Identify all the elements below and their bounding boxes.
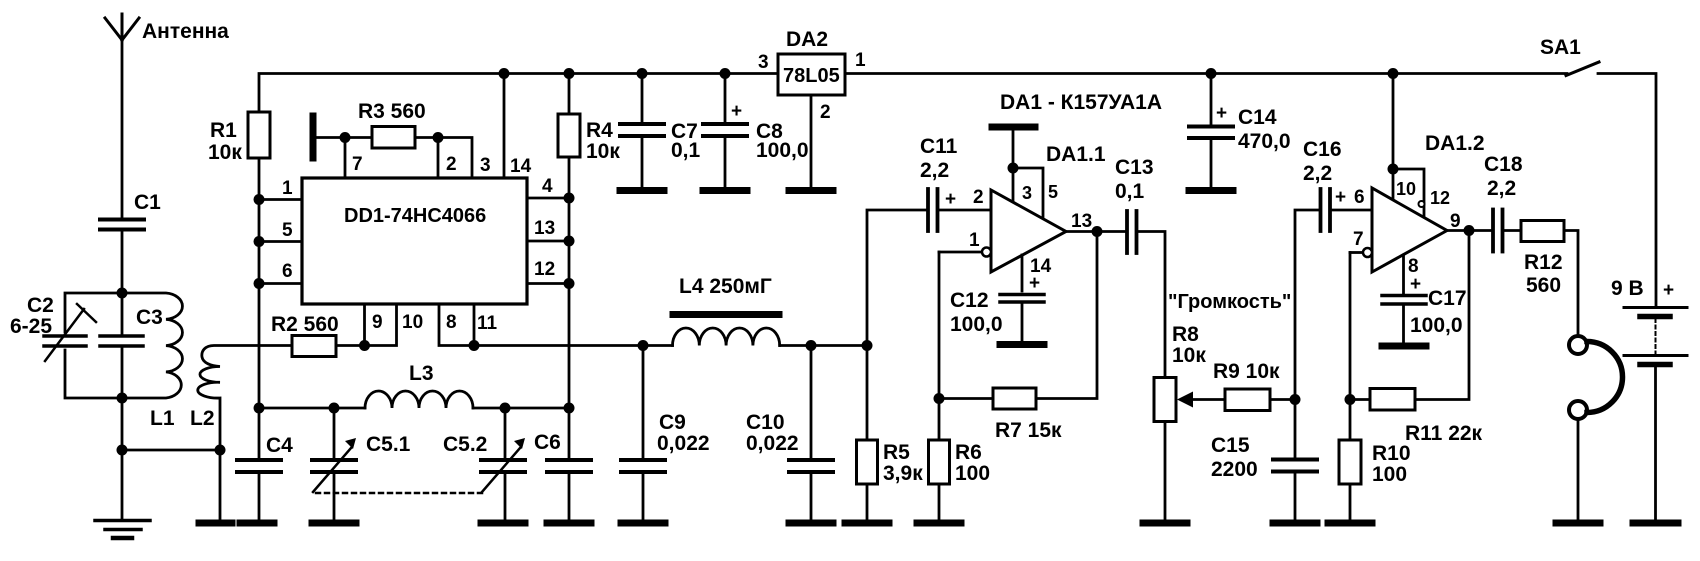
svg-text:3: 3 [480, 155, 491, 176]
wire pin 13 [527, 240, 569, 243]
resistor R11 22k [1370, 389, 1415, 411]
node pin13 [564, 236, 575, 247]
pin 12 small circle [1419, 201, 1425, 207]
svg-text:8: 8 [446, 312, 457, 333]
capacitor C9 0,022 [621, 346, 665, 520]
svg-text:L3: L3 [409, 362, 434, 385]
pin 7 input circle [1350, 248, 1372, 257]
node pin13 output [1092, 226, 1103, 237]
wire pin 9 [363, 304, 366, 346]
capacitor C5.2 (variable) [481, 408, 525, 519]
svg-text:+: + [1216, 103, 1227, 124]
ground bar under C9 [621, 520, 665, 527]
svg-text:100: 100 [955, 462, 990, 485]
capacitor C5.1 (variable) [312, 408, 356, 519]
svg-text:R12: R12 [1524, 251, 1563, 274]
svg-text:7: 7 [1353, 229, 1364, 250]
svg-text:10: 10 [1396, 179, 1416, 199]
ground bar under R10 [1328, 520, 1372, 527]
svg-text:DA1.2: DA1.2 [1425, 132, 1485, 155]
svg-text:DA2: DA2 [786, 28, 828, 51]
svg-text:R5: R5 [883, 441, 910, 464]
svg-text:C15: C15 [1211, 434, 1250, 457]
ground bar under battery [1633, 520, 1678, 527]
node pin9 output [1464, 225, 1475, 236]
node pins 10/12 tie [1388, 164, 1399, 175]
svg-text:13: 13 [1071, 211, 1092, 232]
svg-text:560: 560 [1526, 274, 1561, 297]
svg-text:7: 7 [352, 154, 363, 175]
svg-text:SA1: SA1 [1540, 36, 1581, 59]
svg-text:C2: C2 [27, 294, 54, 317]
wire R7 to output [1036, 232, 1097, 399]
svg-text:R2 560: R2 560 [271, 313, 339, 336]
svg-text:DD1-74HC4066: DD1-74HC4066 [344, 205, 486, 227]
svg-text:3: 3 [1022, 183, 1032, 203]
wire to L4 [643, 344, 673, 347]
inductor L3 [365, 391, 473, 408]
svg-text:R9 10к: R9 10к [1213, 360, 1280, 383]
wire pin 2 drop [437, 138, 440, 179]
capacitor C3 [100, 293, 143, 398]
wire pin 1 [259, 198, 302, 201]
wire pin 4 [527, 197, 569, 200]
regulator DA2 78L05 [778, 54, 845, 95]
wire R11 to output [1415, 231, 1469, 400]
svg-text:R11 22к: R11 22к [1405, 422, 1483, 445]
svg-text:C3: C3 [136, 306, 163, 329]
node rail R4 [564, 68, 575, 79]
svg-text:5: 5 [1048, 182, 1058, 202]
node R6/R7 junction [934, 393, 945, 404]
wire pin 7 drop [344, 138, 347, 179]
node C2/C3/L1 bottom junction [117, 393, 128, 404]
svg-text:C5.2: C5.2 [443, 433, 487, 456]
node C9 junction [638, 340, 649, 351]
svg-text:6: 6 [1354, 187, 1365, 208]
svg-text:9: 9 [372, 312, 383, 333]
wire DA2 pin2 [810, 95, 813, 187]
node pin11 [469, 340, 480, 351]
svg-text:13: 13 [534, 218, 555, 239]
antenna WA1 [105, 14, 139, 217]
wire L3 row [259, 407, 365, 410]
svg-text:3: 3 [758, 52, 769, 73]
resistor R5 3,9k [857, 346, 878, 520]
svg-text:0,022: 0,022 [746, 432, 799, 455]
svg-text:100: 100 [1372, 463, 1407, 486]
svg-text:2,2: 2,2 [1303, 162, 1332, 185]
node pin6 junction [254, 278, 265, 289]
capacitor C2 (variable) [44, 293, 122, 398]
svg-text:10к: 10к [1172, 344, 1206, 367]
svg-text:C13: C13 [1115, 156, 1154, 179]
svg-text:78L05: 78L05 [783, 65, 840, 87]
wire pins 8,11 to filter [439, 304, 643, 346]
svg-text:12: 12 [534, 259, 555, 280]
svg-text:L4 250мГ: L4 250мГ [679, 275, 772, 298]
svg-text:R7 15к: R7 15к [995, 419, 1062, 442]
wire R2 to pins 9,10 [336, 304, 397, 346]
wire dashed gang link [316, 492, 482, 495]
node pin7 junction [340, 132, 351, 143]
wire pin 14 drop [503, 74, 506, 179]
svg-text:0,022: 0,022 [657, 432, 710, 455]
wire R9 to C15/C16 node [1270, 398, 1295, 401]
node C5.1 [329, 403, 340, 414]
svg-text:2: 2 [820, 102, 831, 123]
node pin12 [564, 278, 575, 289]
svg-text:1: 1 [282, 178, 293, 199]
svg-text:+: + [945, 189, 956, 210]
resistor R9 10k [1225, 389, 1270, 411]
svg-text:L2: L2 [190, 407, 215, 430]
capacitor C8 100,0 [703, 74, 747, 188]
capacitor C4 [237, 408, 281, 519]
pin 1 input circle [939, 248, 991, 257]
node L3 left [254, 403, 265, 414]
svg-text:14: 14 [1030, 256, 1052, 277]
svg-text:10: 10 [402, 312, 423, 333]
svg-text:C6: C6 [534, 431, 561, 454]
svg-text:C17: C17 [1428, 287, 1467, 310]
svg-text:R6: R6 [955, 441, 982, 464]
svg-text:12: 12 [1430, 188, 1450, 208]
node rail DA1.2 supply [1388, 68, 1399, 79]
ground bar under R5 [845, 520, 889, 527]
wire L3 right [473, 407, 569, 410]
switch SA1 [1566, 62, 1656, 306]
power tap bar DA1.1 [992, 124, 1035, 131]
node C11/R5 junction [862, 340, 873, 351]
capacitor C18 2,2 [1493, 210, 1521, 252]
power tap bar (pin 7 supply) [310, 116, 317, 158]
svg-text:R10: R10 [1372, 442, 1411, 465]
ground bar under C8 [703, 187, 747, 194]
capacitor C12 100,0 [1000, 255, 1044, 341]
node C10 junction [806, 340, 817, 351]
ground bar under C6 [547, 520, 591, 527]
svg-text:C1: C1 [134, 191, 161, 214]
ground bar under phones [1556, 520, 1600, 527]
svg-text:C16: C16 [1303, 138, 1342, 161]
svg-text:10к: 10к [586, 140, 620, 163]
ground bar under R6 [917, 520, 961, 527]
capacitor C1 [100, 220, 144, 293]
svg-text:C12: C12 [950, 289, 989, 312]
capacitor C17 100,0 [1382, 255, 1426, 342]
ground bar under C5.1 [312, 520, 356, 527]
ground bar under C4 [240, 520, 274, 527]
ground bar under C14 [1189, 187, 1233, 194]
inductor L4 [673, 328, 780, 346]
ground bar under C7 [620, 187, 664, 194]
svg-text:C14: C14 [1238, 106, 1277, 129]
svg-text:100,0: 100,0 [950, 313, 1003, 336]
svg-text:470,0: 470,0 [1238, 130, 1291, 153]
ground bar under C5.2 [481, 520, 525, 527]
wire pin 12 [527, 282, 569, 285]
svg-text:+: + [1663, 280, 1674, 301]
node pin2 junction [433, 132, 444, 143]
node antenna-tank junction [117, 288, 128, 299]
svg-text:4: 4 [542, 176, 553, 197]
ground bar under C15 [1273, 520, 1317, 527]
svg-text:0,1: 0,1 [671, 139, 701, 162]
resistor R10 100 [1339, 400, 1361, 520]
op-amp DA1.2 [1372, 188, 1447, 272]
svg-text:2200: 2200 [1211, 458, 1258, 481]
svg-text:2,2: 2,2 [920, 159, 949, 182]
ground bar under C12 [1000, 341, 1044, 348]
svg-text:9: 9 [1450, 211, 1461, 232]
node pin4 [564, 193, 575, 204]
node ground-wire junction left [117, 445, 128, 456]
ground bar under C17 [1382, 343, 1426, 350]
wire DA1.2 output [1447, 229, 1491, 232]
svg-text:C10: C10 [746, 411, 785, 434]
capacitor C14 470,0 [1189, 74, 1233, 188]
svg-text:2: 2 [446, 154, 457, 175]
wiper arrow R8 [1177, 392, 1225, 408]
svg-text:1: 1 [855, 50, 866, 71]
resistor R6 100 [929, 399, 950, 520]
wire junction to R7 [939, 397, 993, 400]
svg-text:2: 2 [973, 187, 984, 208]
ground (classic) under tank [95, 521, 150, 539]
resistor R2 560 [292, 336, 336, 357]
ground bar under L2 [199, 520, 232, 527]
inductor L1 [122, 293, 182, 398]
svg-text:+: + [1410, 274, 1421, 295]
svg-text:DA1 - К157УА1А: DA1 - К157УА1А [1000, 91, 1162, 114]
wire pin 5 [259, 240, 302, 243]
wire pins 3,5 supply [1013, 130, 1043, 219]
node pin1 junction [254, 194, 265, 205]
wire pin1 feedback drop [938, 252, 941, 399]
svg-text:10к: 10к [208, 141, 242, 164]
wire L4 out [780, 344, 867, 347]
capacitor C11 2,2 [867, 189, 991, 346]
svg-text:9 В: 9 В [1611, 277, 1644, 300]
wire pin 11 [473, 304, 476, 346]
svg-text:+: + [1335, 187, 1346, 208]
svg-text:R4: R4 [586, 119, 613, 142]
resistor R3 560 [372, 127, 415, 149]
svg-text:1: 1 [969, 230, 980, 251]
inductor L2 [198, 346, 292, 520]
wire pin 6 [259, 282, 302, 285]
svg-text:14: 14 [510, 156, 532, 177]
capacitor C7 0,1 [620, 74, 664, 188]
capacitor C16 2,2 [1295, 189, 1372, 400]
svg-text:100,0: 100,0 [756, 139, 809, 162]
svg-text:C11: C11 [920, 135, 958, 158]
wire R3 to pins 2,3 [415, 138, 472, 179]
ground bar under R8 [1143, 520, 1187, 527]
potentiometer R8 [1154, 378, 1176, 520]
capacitor C6 [547, 408, 591, 519]
node ground-wire junction at L2 [215, 445, 226, 456]
wire ground link [122, 449, 220, 452]
resistor R1 10k [248, 112, 270, 408]
node pin5 junction [254, 236, 265, 247]
capacitor C15 2200 [1273, 400, 1317, 520]
wire pin7 drop [1349, 253, 1352, 400]
ground bar under DA2 [789, 187, 833, 194]
wire pins 10,12 supply [1393, 74, 1424, 218]
wire R12 to phones [1564, 231, 1578, 337]
svg-text:L1: L1 [150, 407, 175, 430]
svg-text:+: + [731, 101, 742, 122]
node rail C8 [720, 68, 731, 79]
node R10/R11 junction [1345, 394, 1356, 405]
headphone BF1 [1569, 336, 1623, 519]
svg-text:R1: R1 [210, 119, 237, 142]
svg-text:6-25: 6-25 [10, 315, 52, 338]
op-amp DA1.1 [991, 190, 1066, 272]
IC DD1 74HC4066 box [302, 178, 527, 304]
wire DA1.1 output [1066, 230, 1125, 233]
node C5.2 [500, 403, 511, 414]
svg-text:C4: C4 [266, 434, 293, 457]
capacitor C13 0,1 [1127, 211, 1165, 378]
resistor R7 15k [993, 388, 1036, 409]
svg-text:11: 11 [477, 313, 498, 334]
svg-text:C9: C9 [659, 411, 686, 434]
inductor L4 250mH core bar [673, 311, 779, 318]
svg-text:C5.1: C5.1 [366, 433, 411, 456]
svg-text:0,1: 0,1 [1115, 180, 1145, 203]
node pins 3/5 tie [1008, 163, 1019, 174]
svg-text:5: 5 [282, 220, 293, 241]
svg-text:100,0: 100,0 [1410, 314, 1463, 337]
svg-text:2,2: 2,2 [1487, 177, 1516, 200]
svg-text:C18: C18 [1484, 153, 1523, 176]
node rail C7 [637, 68, 648, 79]
resistor R12 560 [1521, 221, 1564, 242]
svg-text:3,9к: 3,9к [883, 462, 923, 485]
svg-text:R8: R8 [1172, 323, 1199, 346]
node rail pin14 [499, 68, 510, 79]
node C14 rail [1206, 68, 1217, 79]
capacitor C10 0,022 [789, 346, 833, 520]
node L3 right / C6 [564, 403, 575, 414]
svg-text:"Громкость": "Громкость" [1168, 291, 1291, 313]
svg-text:R3 560: R3 560 [358, 100, 426, 123]
svg-text:Антенна: Антенна [142, 20, 229, 43]
battery GB1 9V [1624, 308, 1687, 520]
svg-text:6: 6 [282, 261, 293, 282]
svg-text:8: 8 [1408, 256, 1419, 277]
ground bar under C10 [789, 520, 833, 527]
svg-text:DA1.1: DA1.1 [1046, 143, 1106, 166]
wire bar to pin7 [316, 136, 372, 139]
node pin9 [359, 340, 370, 351]
node C15/C16 junction [1290, 394, 1301, 405]
wire top rail [259, 74, 1567, 113]
wire junction to R11 [1350, 398, 1370, 401]
resistor R4 10k [558, 74, 580, 409]
